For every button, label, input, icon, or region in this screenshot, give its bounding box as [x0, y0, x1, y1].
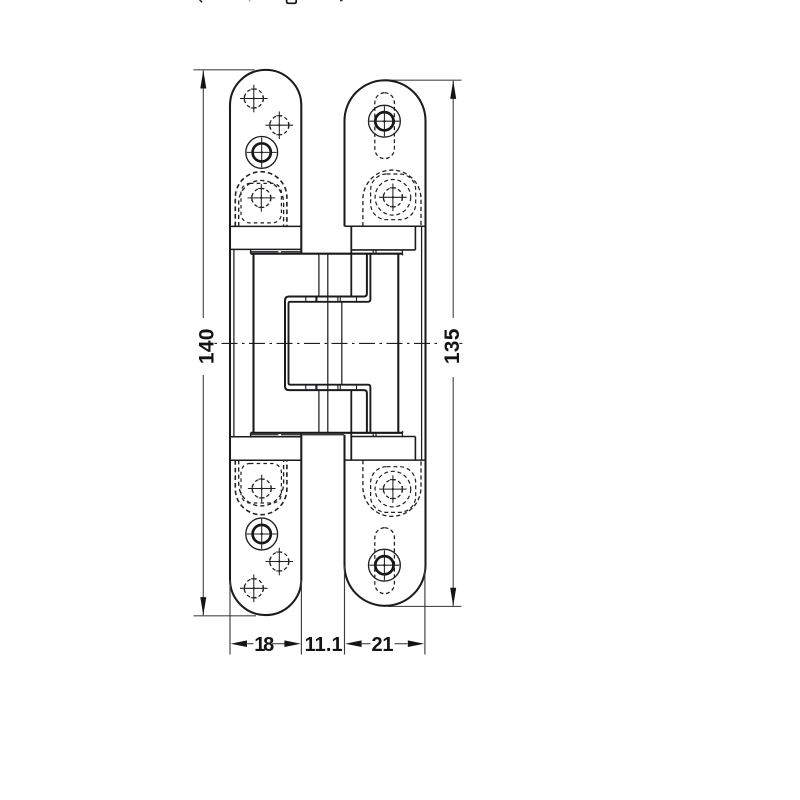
left lower mortise outer arch	[235, 460, 287, 514]
left plate lower drill target 1	[240, 575, 268, 603]
dimension 140: vertical line lower segment	[202, 375, 204, 615]
pin line lower left	[318, 391, 320, 433]
left plate upper section line	[230, 225, 301, 227]
left upper mortise target	[247, 184, 275, 212]
right leaf upper shoulder corner	[414, 226, 416, 250]
lower tab line right segment	[281, 434, 301, 436]
left plate inner side line	[233, 249, 235, 436]
right leaf inner edge lower	[350, 390, 352, 460]
svg-text:135: 135	[441, 328, 464, 364]
dimension 21: left arrow	[345, 640, 361, 647]
right lower mortise target	[379, 475, 407, 503]
link bracket inner contour	[289, 254, 371, 433]
clipped header fragment: diagonal tick	[199, 0, 202, 2]
left plate upper screw hole	[246, 137, 278, 169]
dimension 135: top extension line	[388, 79, 462, 81]
right leaf upper shoulder line	[351, 249, 415, 251]
right lower screw slot	[375, 528, 395, 594]
dimension 135: vertical line lower segment	[452, 377, 454, 606]
pin line upper left	[318, 254, 320, 296]
lower shoulder dividers	[373, 433, 402, 437]
left plate outline	[230, 70, 301, 615]
hinge body top edge	[251, 253, 403, 255]
dimension 18: left tail	[246, 643, 254, 645]
right lower mortise circle	[375, 471, 411, 507]
dimension 18: right arrow	[284, 640, 300, 647]
svg-text:18: 18	[254, 634, 274, 656]
left lower mortise inner arch	[239, 460, 284, 506]
hinge body bottom-left step	[250, 433, 252, 437]
dimension 18: left arrow	[231, 640, 247, 647]
right plate lower section line	[345, 459, 426, 461]
right upper screw slot	[375, 93, 395, 159]
bottom extension line at x301	[300, 580, 302, 655]
dimension 21: right arrow	[408, 640, 424, 647]
svg-text:11.1: 11.1	[305, 634, 343, 656]
left upper mortise outer arch	[235, 172, 287, 226]
right lower screw hole	[369, 549, 401, 581]
right lower mortise middle contour	[371, 467, 416, 513]
right leaf inner edge upper	[350, 226, 352, 296]
upper tab line left segment	[251, 251, 279, 253]
dimension 21: right tail	[395, 643, 408, 645]
horizontal centerline through hinge axis	[215, 342, 442, 344]
clipped header fragment: box bottom	[287, 0, 297, 3]
link bracket outer contour	[285, 254, 367, 433]
bottom extension line at x344	[344, 566, 346, 655]
hinge body left edge	[252, 254, 254, 433]
right lower mortise outer arch	[363, 460, 421, 516]
right leaf lower shoulder line	[351, 436, 415, 438]
dimension 135: bottom extension line	[388, 605, 462, 607]
right leaf lower shoulder corner	[414, 437, 416, 461]
dimension 135: vertical line upper segment	[452, 81, 454, 318]
pin line inner right	[341, 302, 343, 384]
clipped header fragment: faint tick	[249, 0, 251, 2]
left plate lower screw hole	[246, 518, 278, 550]
clipped header fragment: dash	[340, 0, 343, 2]
left plate upper drill target 1	[240, 85, 268, 113]
lower tab line left segment	[251, 434, 279, 436]
hinge body top-left step	[250, 249, 252, 253]
left plate lower section line	[230, 459, 301, 461]
right plate upper section line	[345, 225, 426, 227]
lower gap ledge line	[303, 434, 345, 436]
left upper mortise inner arch	[239, 180, 284, 226]
left plate lower drill target 2	[266, 548, 294, 576]
svg-text:140: 140	[195, 328, 218, 364]
right upper mortise outer arch	[363, 170, 421, 226]
hinge body right overhang top	[402, 254, 404, 256]
lower bushing dividers	[306, 385, 357, 390]
hinge body bottom edge	[251, 432, 403, 434]
dimension 140: bottom arrowhead	[200, 597, 206, 615]
dimension 140: top extension line	[194, 69, 255, 71]
right upper screw hole	[369, 105, 401, 137]
hinge body right overhang bottom	[402, 431, 404, 433]
dimension 140: vertical line upper segment	[202, 70, 204, 318]
pin line full center	[327, 254, 329, 433]
dimension 135: bottom arrowhead	[450, 588, 456, 606]
svg-text:21: 21	[372, 634, 394, 656]
dimension 21: left tail	[361, 643, 371, 645]
upper shoulder dividers	[373, 250, 402, 254]
dimension 140: bottom extension line	[194, 615, 257, 617]
right plate outline	[345, 80, 426, 606]
left lower mortise target	[248, 475, 276, 503]
left lower mortise boss rect	[241, 464, 281, 504]
left plate lower top edge	[230, 436, 301, 438]
dimension 18: right tail	[272, 643, 285, 645]
bottom extension line at x425	[424, 566, 426, 655]
dimension 140: top arrowhead	[200, 70, 206, 88]
right upper mortise circle	[375, 180, 411, 216]
right plate inner side line	[421, 226, 423, 460]
hinge body right edge	[397, 254, 399, 433]
right upper mortise middle contour	[371, 174, 416, 220]
left plate upper drill target 2	[266, 111, 294, 139]
upper tab line right segment	[281, 251, 301, 253]
right upper mortise target	[379, 184, 407, 212]
bottom extension line at x230	[229, 580, 231, 655]
left upper mortise boss rect	[241, 183, 281, 223]
upper bushing dividers	[306, 297, 357, 302]
dimension 135: top arrowhead	[450, 81, 456, 99]
left plate upper bottom edge	[230, 248, 301, 250]
